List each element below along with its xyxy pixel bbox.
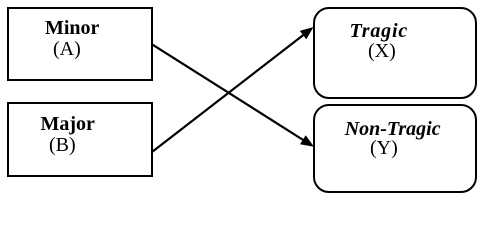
- arrow A to Y : wire: [152, 44, 304, 140]
- label Minor: [45, 18, 99, 38]
- arrow A to Y : head: [300, 135, 314, 147]
- label Tragic: [350, 21, 409, 41]
- box Minor (A): [7, 7, 153, 81]
- label (A): [53, 39, 81, 59]
- label Non-Tragic: [345, 119, 441, 139]
- arrow B to X : head: [300, 27, 314, 39]
- label (X): [368, 41, 396, 61]
- label (Y): [370, 138, 398, 158]
- arrow B to X : wire: [152, 35, 304, 153]
- box Major (B): [7, 102, 153, 177]
- label (B): [49, 135, 76, 155]
- label Major: [41, 114, 95, 134]
- box Tragic (X): [313, 7, 478, 100]
- box Non-Tragic (Y): [313, 104, 478, 193]
